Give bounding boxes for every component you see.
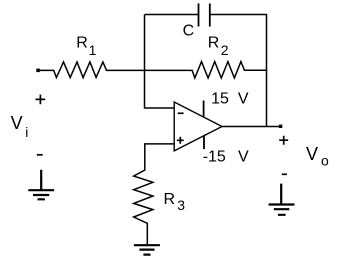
svg-text:C: C	[183, 22, 195, 39]
svg-text:3: 3	[177, 197, 185, 213]
svg-text:o: o	[321, 152, 329, 168]
svg-text:-15: -15	[203, 149, 226, 166]
svg-text:V: V	[238, 149, 249, 166]
svg-text:15: 15	[211, 91, 229, 108]
svg-text:V: V	[238, 91, 249, 108]
svg-text:i: i	[25, 124, 28, 140]
svg-text:R: R	[164, 191, 176, 208]
svg-text:V: V	[306, 144, 318, 164]
svg-text:R: R	[76, 34, 88, 51]
svg-text:1: 1	[89, 42, 97, 58]
svg-text:R: R	[208, 35, 220, 52]
svg-text:2: 2	[221, 42, 229, 58]
svg-text:V: V	[11, 113, 23, 133]
